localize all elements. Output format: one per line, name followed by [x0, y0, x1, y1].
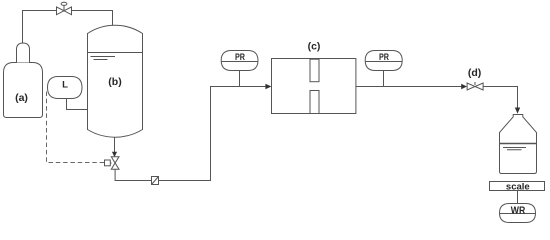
svg-text:scale: scale [506, 182, 530, 193]
svg-text:(d): (d) [468, 67, 481, 79]
svg-text:(b): (b) [108, 76, 121, 88]
svg-text:PR: PR [235, 52, 245, 62]
cell (c) lower baffle [310, 91, 319, 114]
level indicator L [48, 77, 83, 99]
wire: PR1 stem [239, 71, 241, 87]
valve (d) (bowtie with stem tick) [467, 82, 483, 90]
cell (c) upper baffle [310, 59, 319, 81]
wire: tank (b) outlet down to valve V2 (with arrowhead) [114, 137, 116, 152]
bottle liquid surface hatches [503, 148, 526, 150]
wire: scale to WR [517, 191, 519, 204]
pressure indicator PR1 (left) [221, 51, 258, 71]
tank (b) liquid level line [88, 52, 143, 54]
arrowhead into cell (c) [265, 84, 271, 90]
weight recorder WR [500, 204, 536, 223]
control valve V2 (vertical bowtie) [111, 157, 119, 170]
bottle liquid level line [500, 143, 537, 145]
svg-text:(a): (a) [15, 92, 28, 104]
svg-text:L: L [62, 80, 68, 91]
svg-text:WR: WR [511, 205, 526, 216]
wire: valve (d) to bottle (down leg with arrowhead) [483, 87, 517, 109]
valve V1 (hand valve on top line) [57, 2, 72, 15]
membrane cell (c) box [272, 59, 356, 114]
tank (b) shell [88, 25, 143, 137]
flow arrowhead before valve (d) [461, 84, 467, 90]
gas cylinder (a) neck [17, 43, 30, 63]
wire: L indicator tap to tank wall [67, 99, 88, 110]
actuator square of valve V2 [105, 160, 111, 166]
wire: valve V2 to riser corner (bottom run) [115, 87, 268, 181]
wire: PR2 stem [383, 71, 385, 87]
svg-text:PR: PR [379, 52, 389, 62]
tank (b) liquid surface hatches [91, 57, 116, 60]
collection bottle [500, 115, 537, 174]
scale box [490, 182, 545, 191]
pressure indicator PR2 (right) [365, 51, 402, 71]
inline filter (square with diagonal) [152, 177, 159, 185]
dashed signal: L to control valve actuator [47, 92, 105, 163]
wire: cell (c) outlet to valve (d) [356, 86, 463, 88]
gas cylinder (a) body [4, 63, 43, 118]
wire: cylinder (a) to valve V1 to tank (b) top [23, 11, 113, 44]
svg-text:(c): (c) [308, 40, 321, 52]
